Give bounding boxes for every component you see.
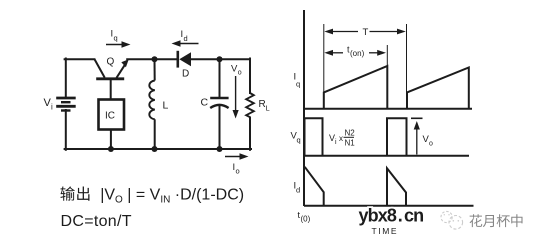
node B (output node) xyxy=(217,56,223,62)
watermark icon xyxy=(441,211,463,229)
Vq baseline xyxy=(304,155,469,157)
svg-text:i: i xyxy=(51,103,53,112)
wire right branch top xyxy=(249,59,251,94)
svg-text:T: T xyxy=(363,27,369,38)
label t(0) xyxy=(298,210,311,224)
label Iq with arrow xyxy=(111,29,118,43)
svg-text:N2: N2 xyxy=(345,129,356,138)
wire base-to-IC xyxy=(110,79,112,99)
label Iq (waveform) xyxy=(294,72,301,89)
Iq ramp 2 xyxy=(407,68,469,109)
junction dot IC bottom xyxy=(108,146,114,152)
diode D1 triangle xyxy=(179,52,191,66)
svg-text:L: L xyxy=(266,104,270,113)
arrow Vo up xyxy=(414,121,420,155)
label Id with arrow xyxy=(181,29,188,43)
label Vq (waveform) xyxy=(291,131,301,145)
node A (collector node) xyxy=(152,56,158,62)
arrow Io xyxy=(225,153,249,159)
svg-text:IC: IC xyxy=(105,111,115,122)
watermark text 花月杯中 xyxy=(470,214,523,227)
svg-text:DC=ton/T: DC=ton/T xyxy=(61,213,132,230)
svg-text:o: o xyxy=(236,167,240,176)
Vo measure bar xyxy=(411,117,423,119)
label Vo (waveform) xyxy=(423,134,434,148)
Iq ramp 1 xyxy=(324,66,388,109)
svg-text:N1: N1 xyxy=(345,139,356,148)
junction dot capacitor bottom xyxy=(217,146,223,152)
svg-text:o: o xyxy=(238,70,242,77)
svg-text:i: i xyxy=(335,139,337,146)
svg-text:x: x xyxy=(339,134,343,143)
svg-text:C: C xyxy=(201,97,209,109)
transistor emitter arrowhead xyxy=(121,59,129,67)
Vq pulse 1 xyxy=(305,118,323,156)
svg-text:d: d xyxy=(184,34,188,43)
svg-text:(on): (on) xyxy=(350,49,365,58)
wire diode-to-node xyxy=(190,58,250,60)
wire node-to-inductor xyxy=(154,59,156,80)
wire left vertical (Vi bottom) xyxy=(65,110,67,150)
wire top-left horizontal xyxy=(65,58,95,60)
wire IC-to-rail xyxy=(110,130,112,150)
Id baseline (time axis) xyxy=(304,205,474,207)
label Vi x N2/N1 xyxy=(329,129,355,148)
svg-text:L: L xyxy=(163,100,169,112)
battery V_i xyxy=(56,98,75,111)
arrow Vo down xyxy=(233,76,239,119)
wire capacitor-to-rail xyxy=(219,104,221,149)
inductor L1 xyxy=(149,81,154,120)
svg-text:d: d xyxy=(296,186,300,195)
wire right branch bottom xyxy=(249,118,251,150)
IC box U1 xyxy=(99,100,125,130)
label Vo (circuit) xyxy=(231,64,242,77)
svg-text:(0): (0) xyxy=(301,215,311,224)
Id pulse 1 xyxy=(305,167,324,206)
Id pulse 2 xyxy=(387,168,406,206)
wire node-to-capacitor xyxy=(219,59,221,97)
junction dot inductor bottom xyxy=(152,146,158,152)
svg-text:q: q xyxy=(114,34,118,43)
refline t-on end xyxy=(386,45,388,66)
label Vi xyxy=(44,97,54,112)
capacitor C1 xyxy=(210,98,228,108)
dimension arrow t(on) xyxy=(328,52,382,54)
svg-text:ybx8.cn: ybx8.cn xyxy=(359,206,424,226)
dimension arrow T xyxy=(328,31,403,33)
label Io xyxy=(233,162,240,176)
arrow Id xyxy=(172,40,199,46)
refline period end xyxy=(406,24,408,92)
waveform axis xyxy=(303,10,305,206)
wire inductor-to-rail xyxy=(154,119,156,149)
diode D1 cathode bar xyxy=(177,51,180,68)
svg-text:Q: Q xyxy=(107,57,115,68)
svg-text:TIME: TIME xyxy=(372,226,399,236)
Vq pulse 2 xyxy=(387,118,407,156)
svg-text:|VO | = VIN ·D/(1-DC): |VO | = VIN ·D/(1-DC) xyxy=(100,187,244,206)
arrow Iq xyxy=(106,41,131,47)
resistor RL xyxy=(246,93,254,118)
wire bottom rail xyxy=(65,148,251,150)
label Id (waveform) xyxy=(294,181,301,195)
svg-text:q: q xyxy=(296,80,300,89)
refline t-on start xyxy=(323,24,325,92)
svg-text:D: D xyxy=(182,69,189,80)
label RL xyxy=(259,99,270,113)
wire collector-to-node xyxy=(127,58,176,60)
label t(on) xyxy=(347,45,365,59)
svg-text:o: o xyxy=(429,141,433,148)
transistor Q1 xyxy=(94,59,126,79)
formula line 1 hanzi 输出 xyxy=(60,186,89,200)
Iq baseline xyxy=(304,108,472,110)
svg-text:q: q xyxy=(297,136,301,145)
wire left vertical (Vi top) xyxy=(65,59,67,98)
